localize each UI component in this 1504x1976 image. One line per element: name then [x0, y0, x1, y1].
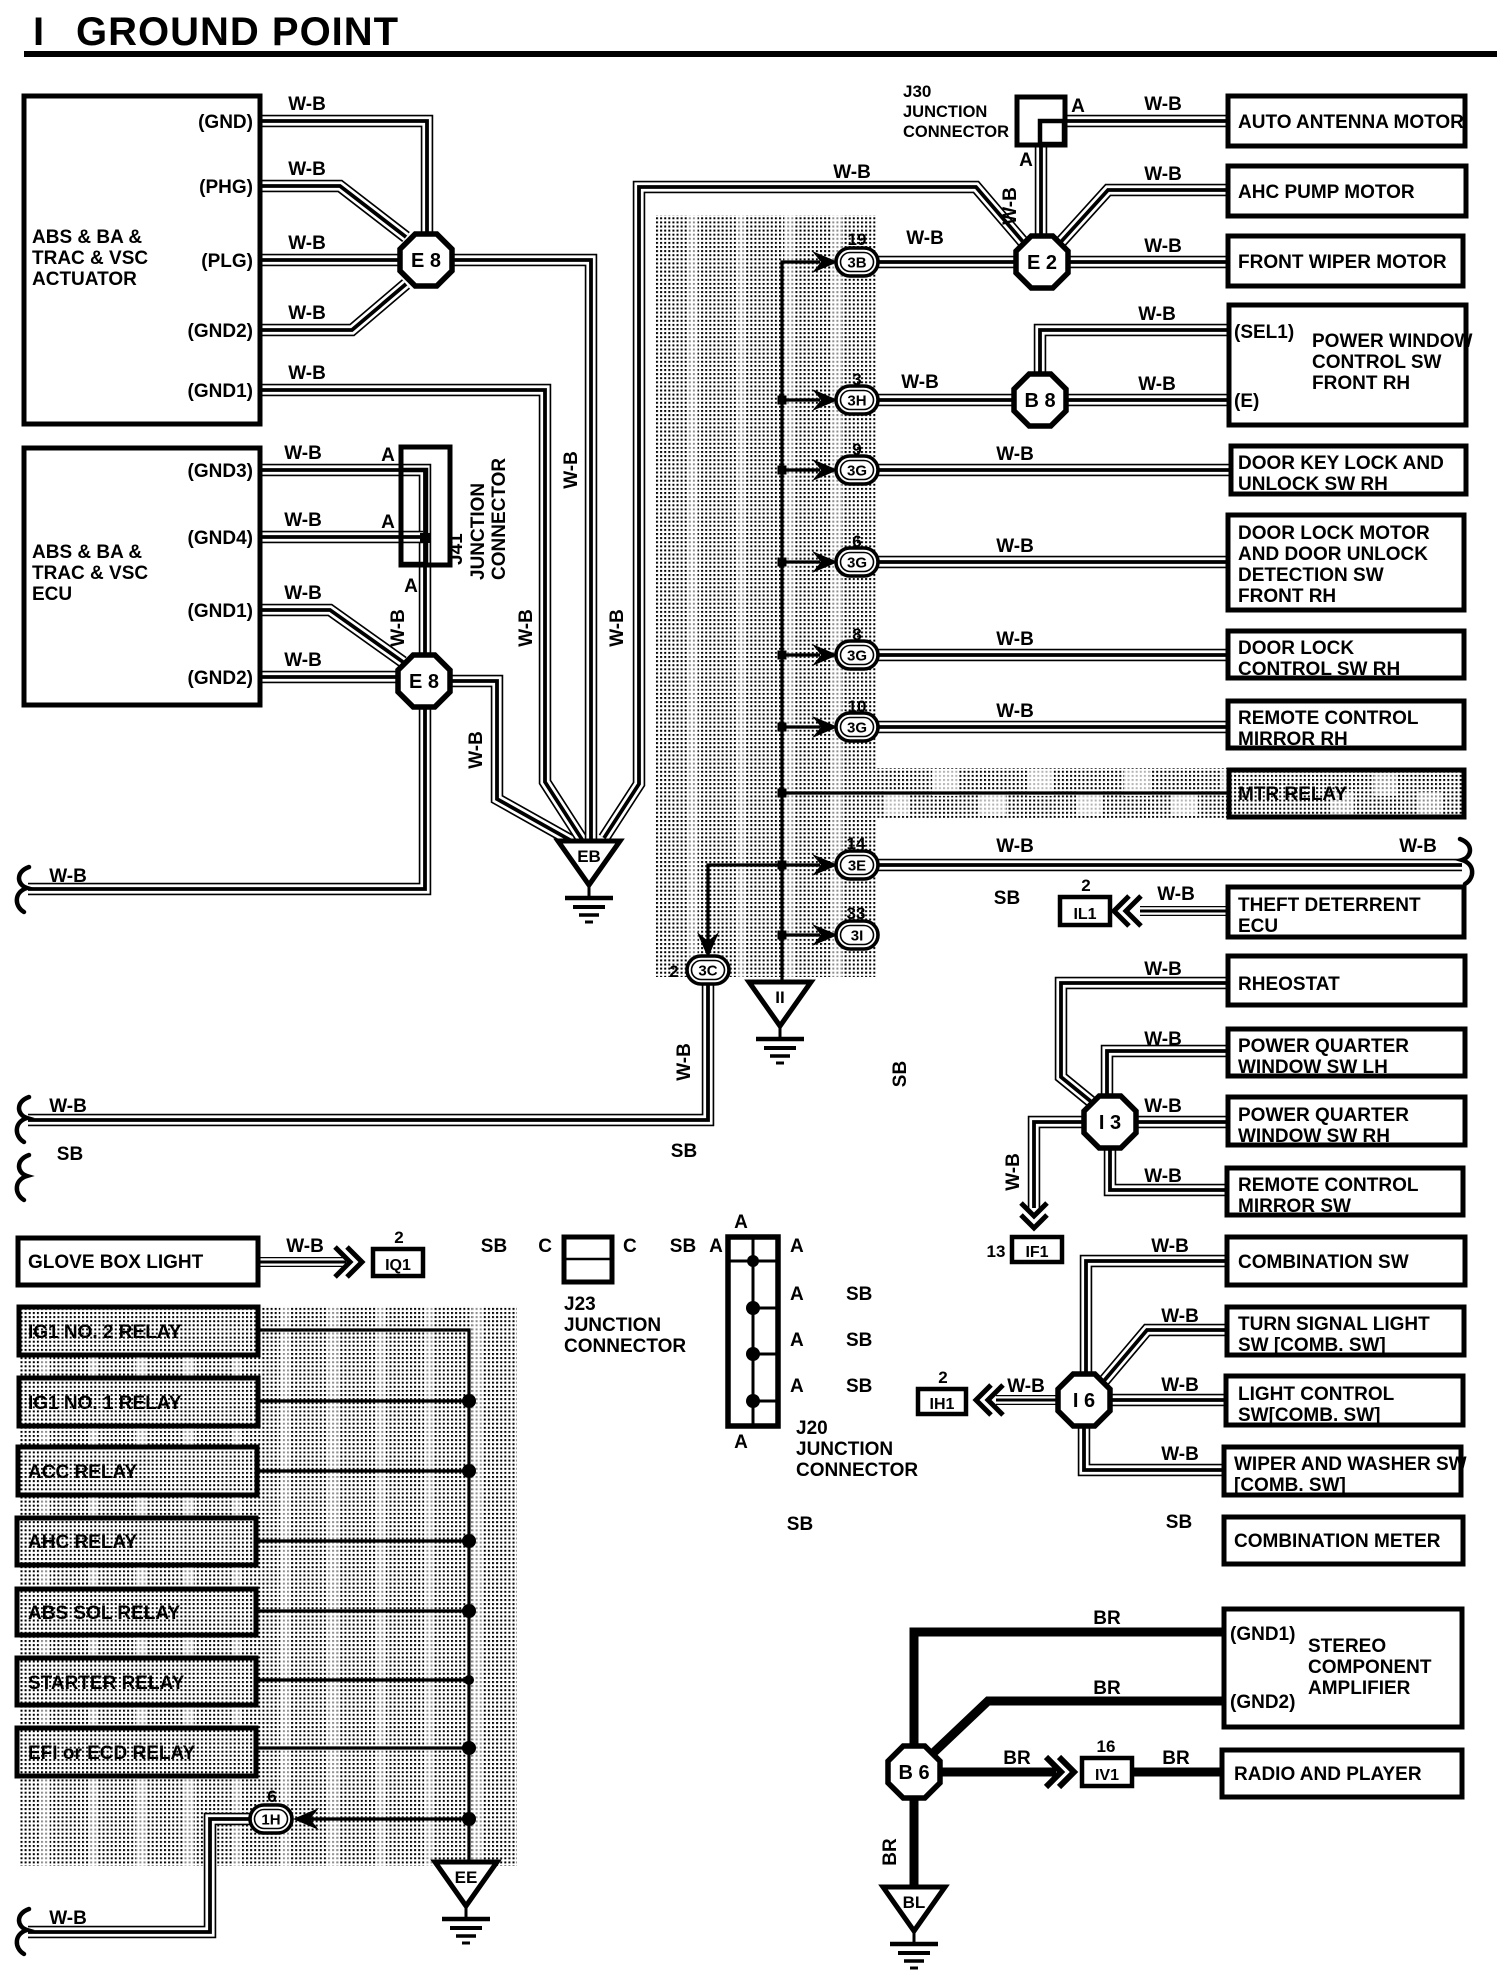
label W-B (GND4): [284, 510, 322, 531]
svg-text:IH1: IH1: [930, 1396, 955, 1413]
label W-B left edge y1932: [49, 1908, 87, 1929]
wire (GND2) to E8: [260, 284, 406, 330]
label W-B (PHG): [288, 159, 326, 180]
svg-text:E 8: E 8: [409, 671, 439, 693]
svg-text:W-B: W-B: [288, 303, 326, 324]
box REMOTE CONTROL MIRROR RH: [1228, 701, 1464, 750]
svg-text:W-B: W-B: [516, 609, 537, 647]
pin number 2 IL1: [1081, 876, 1090, 895]
label A J30 bottom: [1019, 150, 1033, 171]
svg-text:W-B: W-B: [901, 372, 939, 393]
svg-text:(GND): (GND): [198, 112, 253, 133]
svg-text:W-B: W-B: [996, 629, 1034, 650]
svg-text:[COMB. SW]: [COMB. SW]: [1234, 1475, 1346, 1496]
pin number 9: [852, 440, 861, 459]
svg-text:JUNCTION: JUNCTION: [468, 483, 489, 580]
pin number 8: [852, 625, 861, 644]
svg-text:16: 16: [1097, 1737, 1116, 1756]
svg-text:(GND2): (GND2): [1230, 1692, 1295, 1713]
svg-text:DOOR KEY LOCK AND: DOOR KEY LOCK AND: [1238, 453, 1444, 474]
svg-text:3G: 3G: [847, 463, 867, 480]
label W-B 3H-B8: [901, 372, 939, 393]
label W-B (GND): [288, 94, 326, 115]
octagon B6: [888, 1746, 940, 1798]
label W-B theft: [1157, 884, 1195, 905]
svg-text:W-B: W-B: [1138, 374, 1176, 395]
label A (GND4): [381, 512, 395, 533]
wire (GND1) to EB via vertical: [260, 390, 583, 841]
svg-text:W-B: W-B: [288, 363, 326, 384]
wire I6 to IH1: [996, 1395, 1060, 1405]
svg-text:BR: BR: [1162, 1748, 1190, 1769]
svg-text:CONNECTOR: CONNECTOR: [489, 458, 510, 580]
svg-text:3H: 3H: [847, 393, 866, 410]
svg-text:BR: BR: [1003, 1748, 1031, 1769]
box LIGHT CONTROL SW: [1226, 1376, 1463, 1426]
wire ECU (GND1) to E8 lower: [260, 610, 403, 662]
oval 3C: [687, 956, 729, 984]
svg-text:SB: SB: [57, 1144, 83, 1165]
label BR gnd2: [1093, 1678, 1121, 1699]
box THEFT DETERRENT ECU: [1228, 887, 1464, 937]
label SB bottom right: [1166, 1512, 1192, 1533]
pin number 16 IV1: [1097, 1737, 1116, 1756]
ground II: [749, 982, 811, 1063]
label W-B E2 left: [833, 162, 871, 183]
svg-text:IG1 NO. 2 RELAY: IG1 NO. 2 RELAY: [28, 1322, 182, 1343]
svg-text:A: A: [790, 1330, 804, 1351]
box GLOVE BOX LIGHT: [18, 1238, 258, 1285]
octagon I3: [1084, 1096, 1136, 1148]
svg-text:WIPER AND WASHER SW: WIPER AND WASHER SW: [1234, 1454, 1467, 1475]
svg-text:W-B: W-B: [1144, 1166, 1182, 1187]
chevrons into IV1: [1046, 1757, 1074, 1787]
svg-text:W-B: W-B: [561, 451, 582, 489]
wire branch 3G 8: [778, 651, 821, 660]
wire 3G to REMOTE CONTROL MIRROR RH: [876, 721, 1228, 734]
svg-text:2: 2: [938, 1368, 947, 1387]
junction connector J20: [728, 1212, 918, 1481]
box FRONT WIPER MOTOR: [1228, 236, 1463, 286]
svg-text:BR: BR: [1093, 1608, 1121, 1629]
svg-text:ABS SOL RELAY: ABS SOL RELAY: [28, 1603, 180, 1624]
svg-text:A: A: [1071, 96, 1085, 117]
box WIPER AND WASHER SW: [1224, 1447, 1467, 1496]
label W-B light control: [1161, 1375, 1199, 1396]
svg-text:W-B: W-B: [674, 1043, 695, 1081]
title I GROUND POINT: [24, 10, 1497, 54]
svg-text:I 3: I 3: [1099, 1112, 1121, 1134]
wire J30 to AUTO ANTENNA MOTOR: [1063, 115, 1228, 128]
chevrons into IF1 down: [1021, 1203, 1047, 1228]
wire (PLG) to E8: [260, 254, 402, 267]
curl left edge y1932: [17, 1909, 29, 1954]
svg-text:CONTROL SW RH: CONTROL SW RH: [1238, 659, 1400, 680]
box DOOR LOCK MOTOR AND DOOR UNLOCK DETECTION SW FRONT RH: [1228, 515, 1464, 610]
svg-text:(PHG): (PHG): [199, 177, 253, 198]
svg-text:(SEL1): (SEL1): [1234, 322, 1294, 343]
svg-text:DOOR LOCK: DOOR LOCK: [1238, 638, 1354, 659]
wire I3 to POWER QUARTER RH: [1134, 1116, 1228, 1129]
label W-B (GND2): [288, 303, 326, 324]
svg-text:WINDOW SW RH: WINDOW SW RH: [1238, 1126, 1390, 1147]
label SB bottom left: [787, 1514, 813, 1535]
wire relay bus: [258, 1330, 469, 1862]
svg-text:GROUND POINT: GROUND POINT: [76, 10, 399, 54]
svg-text:33: 33: [847, 904, 866, 923]
svg-text:THEFT DETERRENT: THEFT DETERRENT: [1238, 895, 1421, 916]
label W-B bundle C vertical: [607, 609, 628, 647]
svg-text:J30: J30: [903, 82, 931, 101]
label W-B door lock motor: [996, 536, 1034, 557]
svg-text:A: A: [404, 576, 418, 597]
wire E2 to FRONT WIPER MOTOR: [1066, 256, 1228, 269]
label W-B turn signal: [1161, 1306, 1199, 1327]
svg-text:J20: J20: [796, 1418, 828, 1439]
svg-text:JUNCTION: JUNCTION: [796, 1439, 893, 1460]
svg-text:1H: 1H: [261, 1812, 280, 1829]
junction connector J23: [538, 1236, 686, 1357]
wire 1H branch: [310, 1812, 476, 1826]
label SB glove row: [481, 1236, 507, 1257]
wire E2 left to EB: [604, 187, 1024, 838]
svg-text:A: A: [381, 512, 395, 533]
wire COMBINATION SW to I6: [1086, 1261, 1228, 1376]
svg-text:SB: SB: [994, 888, 1020, 909]
svg-text:REMOTE CONTROL: REMOTE CONTROL: [1238, 1175, 1419, 1196]
box RHEOSTAT: [1228, 956, 1465, 1005]
wire (GND) to E8: [260, 121, 427, 235]
label A J30 right: [1071, 96, 1085, 117]
wire 1H to left edge: [28, 1819, 253, 1932]
label BR iv1-radio: [1162, 1748, 1190, 1769]
svg-text:MTR RELAY: MTR RELAY: [1238, 784, 1347, 805]
wire STARTER branch: [256, 1675, 474, 1685]
label W-B bundle A vertical: [516, 609, 537, 647]
wire I3 to IF1: [1034, 1122, 1086, 1208]
wire E8 lower right to EB: [446, 681, 570, 840]
halftone background band center: [655, 215, 877, 977]
box COMBINATION SW: [1227, 1237, 1465, 1285]
svg-text:UNLOCK SW RH: UNLOCK SW RH: [1238, 474, 1388, 495]
label W-B bundle B vertical: [561, 451, 582, 489]
svg-text:E 2: E 2: [1027, 252, 1057, 274]
svg-text:BR: BR: [880, 1838, 901, 1866]
pin number 2 IQ1: [394, 1228, 403, 1247]
wire E8 lower bottom to left edge: [28, 704, 425, 889]
svg-text:SB: SB: [846, 1284, 872, 1305]
svg-text:A: A: [1019, 150, 1033, 171]
svg-text:SB: SB: [890, 1061, 911, 1087]
box DOOR LOCK CONTROL SW RH: [1228, 631, 1464, 680]
svg-text:POWER WINDOW: POWER WINDOW: [1312, 331, 1472, 352]
junction dot J41: [420, 533, 430, 543]
pin number 13 IF1: [987, 1242, 1006, 1261]
svg-text:CONNECTOR: CONNECTOR: [903, 123, 1009, 141]
svg-text:W-B: W-B: [1144, 236, 1182, 257]
svg-text:FRONT RH: FRONT RH: [1238, 586, 1336, 607]
pin number 2 IH1: [938, 1368, 947, 1387]
junction connector J41: [401, 447, 510, 580]
wire IG1 no1 branch: [258, 1394, 476, 1408]
svg-text:SB: SB: [671, 1141, 697, 1162]
svg-text:W-B: W-B: [1144, 1096, 1182, 1117]
arrow into 3I: [812, 924, 838, 946]
svg-text:3G: 3G: [847, 720, 867, 737]
svg-text:W-B: W-B: [996, 836, 1034, 857]
wire E8 right to EB: [448, 260, 591, 841]
curl left edge y1120: [17, 1097, 29, 1142]
svg-text:BL: BL: [903, 1893, 926, 1912]
box TURN SIGNAL LIGHT SW: [1227, 1307, 1464, 1356]
label W-B (GND3): [284, 443, 322, 464]
box AHC PUMP MOTOR: [1228, 166, 1466, 216]
arrow into 3H: [812, 389, 838, 411]
svg-text:COMBINATION METER: COMBINATION METER: [1234, 1531, 1441, 1552]
wire EFI branch: [256, 1741, 476, 1755]
svg-text:W-B: W-B: [996, 536, 1034, 557]
pin number 10: [848, 697, 867, 716]
svg-text:19: 19: [848, 230, 867, 249]
box MTR RELAY: [1229, 770, 1464, 817]
label W-B glove box: [286, 1236, 324, 1257]
svg-text:POWER QUARTER: POWER QUARTER: [1238, 1105, 1409, 1126]
label SB j23 row: [670, 1236, 696, 1257]
pin number 6: [852, 532, 861, 551]
svg-text:6: 6: [852, 532, 861, 551]
label SB vertical near II: [890, 1061, 911, 1087]
svg-text:E 8: E 8: [411, 250, 441, 272]
svg-text:CONNECTOR: CONNECTOR: [796, 1460, 918, 1481]
wire (GND3) through J41 to E8 lower: [260, 470, 425, 658]
connector IV1: [1082, 1758, 1132, 1786]
svg-text:8: 8: [852, 625, 861, 644]
svg-text:AHC RELAY: AHC RELAY: [28, 1532, 137, 1553]
box STEREO COMPONENT AMPLIFIER: [1224, 1609, 1462, 1727]
wire RHEOSTAT to I3: [1061, 983, 1228, 1104]
svg-text:W-B: W-B: [1144, 94, 1182, 115]
octagon I6: [1058, 1374, 1110, 1426]
wire (PHG) to E8: [260, 186, 406, 237]
oval 3I: [836, 921, 878, 949]
box IG1 NO. 2 RELAY: [19, 1307, 258, 1355]
svg-text:(E): (E): [1234, 391, 1259, 412]
octagon B8: [1014, 374, 1066, 426]
wire GLOVE BOX to IQ1: [258, 1257, 346, 1267]
svg-text:W-B: W-B: [833, 162, 871, 183]
svg-text:9: 9: [852, 440, 861, 459]
svg-text:(GND2): (GND2): [188, 668, 253, 689]
svg-text:J23: J23: [564, 1294, 596, 1315]
label A (GND3): [381, 445, 395, 466]
box COMBINATION METER: [1224, 1517, 1463, 1564]
svg-text:W-B: W-B: [1399, 836, 1437, 857]
label W-B J30-E2 vertical: [1000, 187, 1021, 225]
svg-text:I 6: I 6: [1073, 1390, 1095, 1412]
svg-text:COMPONENT: COMPONENT: [1308, 1657, 1432, 1678]
label W-B remote mirror rh: [996, 701, 1034, 722]
svg-text:WINDOW SW LH: WINDOW SW LH: [1238, 1057, 1388, 1078]
svg-text:W-B: W-B: [286, 1236, 324, 1257]
ground EE: [435, 1862, 497, 1943]
svg-text:(GND1): (GND1): [188, 601, 253, 622]
label W-B door key: [996, 444, 1034, 465]
svg-text:JUNCTION: JUNCTION: [564, 1315, 661, 1336]
svg-text:W-B: W-B: [1003, 1153, 1024, 1191]
wire 3G to DOOR KEY LOCK: [876, 464, 1231, 477]
wire 3H to B8: [876, 394, 1016, 407]
label W-B E8-EB diagonal: [466, 731, 487, 769]
label BR gnd1: [1093, 1608, 1121, 1629]
oval 3G 8: [836, 641, 878, 669]
connector IQ1: [373, 1249, 423, 1276]
wire POWER QUARTER LH to I3: [1107, 1051, 1228, 1099]
wire branch 3H: [778, 396, 821, 405]
svg-text:(GND1): (GND1): [188, 381, 253, 402]
wire bus vertical main: [782, 262, 820, 982]
svg-text:C: C: [538, 1236, 552, 1257]
svg-text:W-B: W-B: [1161, 1444, 1199, 1465]
wire MTR RELAY: [778, 789, 1230, 798]
oval 3G 10: [836, 713, 878, 741]
label W-B ECU (GND2): [284, 650, 322, 671]
label W-B E pin: [1138, 374, 1176, 395]
svg-text:3G: 3G: [847, 555, 867, 572]
box ACC RELAY: [18, 1447, 257, 1495]
svg-text:(GND1): (GND1): [1230, 1624, 1295, 1645]
svg-text:W-B: W-B: [284, 443, 322, 464]
wire branch 3G 9: [778, 466, 821, 475]
svg-text:GLOVE BOX LIGHT: GLOVE BOX LIGHT: [28, 1252, 204, 1273]
svg-text:W-B: W-B: [906, 228, 944, 249]
svg-text:6: 6: [267, 1787, 276, 1806]
wire ECU (GND2) to E8 lower: [260, 671, 401, 684]
svg-text:AND DOOR UNLOCK: AND DOOR UNLOCK: [1238, 544, 1428, 565]
connector IF1: [1012, 1237, 1062, 1262]
svg-text:ABS & BA &: ABS & BA &: [32, 227, 142, 248]
label W-B 3E right: [1399, 836, 1437, 857]
pin number 19: [848, 230, 867, 249]
svg-text:W-B: W-B: [1161, 1306, 1199, 1327]
svg-text:ABS & BA &: ABS & BA &: [32, 542, 142, 563]
svg-text:3I: 3I: [851, 928, 864, 945]
svg-text:ECU: ECU: [32, 584, 72, 605]
svg-text:14: 14: [847, 834, 866, 853]
svg-text:W-B: W-B: [466, 731, 487, 769]
svg-text:JUNCTION: JUNCTION: [903, 103, 987, 121]
box IG1 NO. 1 RELAY: [19, 1378, 258, 1426]
box EFI or ECD RELAY: [17, 1728, 256, 1776]
box STARTER RELAY: [17, 1658, 256, 1705]
arrow into 1H: [293, 1808, 319, 1830]
svg-text:EFI or ECD RELAY: EFI or ECD RELAY: [28, 1743, 195, 1764]
label SB below 3C wire: [671, 1141, 697, 1162]
wire 3E to right edge: [876, 859, 1462, 872]
svg-text:REMOTE CONTROL: REMOTE CONTROL: [1238, 708, 1419, 729]
halftone band MTR RELAY row: [877, 768, 1246, 818]
svg-text:W-B: W-B: [284, 583, 322, 604]
svg-text:II: II: [775, 988, 784, 1007]
label A below J41: [404, 576, 418, 597]
svg-text:C: C: [623, 1236, 637, 1257]
wire I6 to TURN SIGNAL: [1103, 1330, 1228, 1382]
label W-B (PLG): [288, 233, 326, 254]
svg-text:COMBINATION SW: COMBINATION SW: [1238, 1252, 1409, 1273]
svg-text:13: 13: [987, 1242, 1006, 1261]
svg-text:SB: SB: [1166, 1512, 1192, 1533]
label W-B left edge y1120: [49, 1096, 87, 1117]
wire E2 to AHC PUMP MOTOR: [1059, 190, 1228, 244]
wire branch 3E: [778, 861, 821, 870]
svg-text:SB: SB: [846, 1330, 872, 1351]
label W-B ih1: [1007, 1376, 1045, 1397]
svg-text:IV1: IV1: [1095, 1767, 1119, 1784]
wire 3B to E2: [876, 256, 1018, 269]
pin number 3: [852, 370, 861, 389]
wire 3G to DOOR LOCK CONTROL: [876, 649, 1228, 662]
ground EB: [558, 841, 620, 922]
svg-text:STARTER RELAY: STARTER RELAY: [28, 1673, 185, 1694]
curl left edge y890: [17, 867, 29, 912]
arrow into 3C: [697, 932, 719, 958]
label W-B J41-E8 vertical: [388, 609, 409, 647]
wire 3G to DOOR LOCK MOTOR: [876, 556, 1228, 569]
oval 3E: [836, 851, 878, 879]
wire B6 to (GND1): [914, 1632, 1224, 1750]
label W-B AHC pump: [1144, 164, 1182, 185]
chevrons into IL1: [1114, 896, 1141, 926]
wire B6 to (GND2): [930, 1701, 1224, 1756]
svg-text:W-B: W-B: [1144, 1029, 1182, 1050]
svg-text:B 6: B 6: [898, 1762, 929, 1784]
curl right edge 3E: [1460, 839, 1472, 884]
box POWER WINDOW CONTROL SW FRONT RH: [1229, 305, 1472, 425]
svg-text:DETECTION SW: DETECTION SW: [1238, 565, 1384, 586]
svg-text:W-B: W-B: [284, 510, 322, 531]
wire branch 3C: [708, 865, 782, 948]
wire I6 to LIGHT CONTROL: [1108, 1394, 1228, 1407]
curl left edge y1178: [17, 1155, 29, 1200]
label W-B 3B-E2: [906, 228, 944, 249]
box POWER QUARTER WINDOW SW RH: [1228, 1097, 1465, 1147]
svg-text:FRONT RH: FRONT RH: [1312, 373, 1410, 394]
wire IV1 to RADIO: [1132, 1768, 1222, 1777]
svg-text:ACC RELAY: ACC RELAY: [28, 1462, 137, 1483]
svg-text:W-B: W-B: [49, 1096, 87, 1117]
svg-text:CONNECTOR: CONNECTOR: [564, 1336, 686, 1357]
connector IH1: [918, 1389, 966, 1414]
svg-text:AHC PUMP MOTOR: AHC PUMP MOTOR: [1238, 182, 1415, 203]
svg-text:(GND4): (GND4): [188, 528, 253, 549]
svg-text:STEREO: STEREO: [1308, 1636, 1386, 1657]
octagon E2: [1016, 236, 1068, 288]
label W-B combination sw: [1151, 1236, 1189, 1257]
wire I3 to REMOTE CONTROL MIRROR SW: [1110, 1145, 1228, 1190]
chevrons into IQ1: [335, 1247, 362, 1277]
svg-text:IF1: IF1: [1025, 1244, 1048, 1261]
wire ABS SOL branch: [256, 1604, 476, 1618]
svg-text:W-B: W-B: [288, 233, 326, 254]
svg-text:BR: BR: [1093, 1678, 1121, 1699]
label W-B SEL1: [1138, 304, 1176, 325]
label W-B I3-IF1 vertical: [1003, 1153, 1024, 1191]
label W-B door lock control: [996, 629, 1034, 650]
svg-text:2: 2: [394, 1228, 403, 1247]
svg-text:POWER QUARTER: POWER QUARTER: [1238, 1036, 1409, 1057]
wire (GND4) to J41: [260, 531, 423, 544]
box DOOR KEY LOCK AND UNLOCK SW RH: [1231, 446, 1466, 495]
svg-text:SB: SB: [481, 1236, 507, 1257]
